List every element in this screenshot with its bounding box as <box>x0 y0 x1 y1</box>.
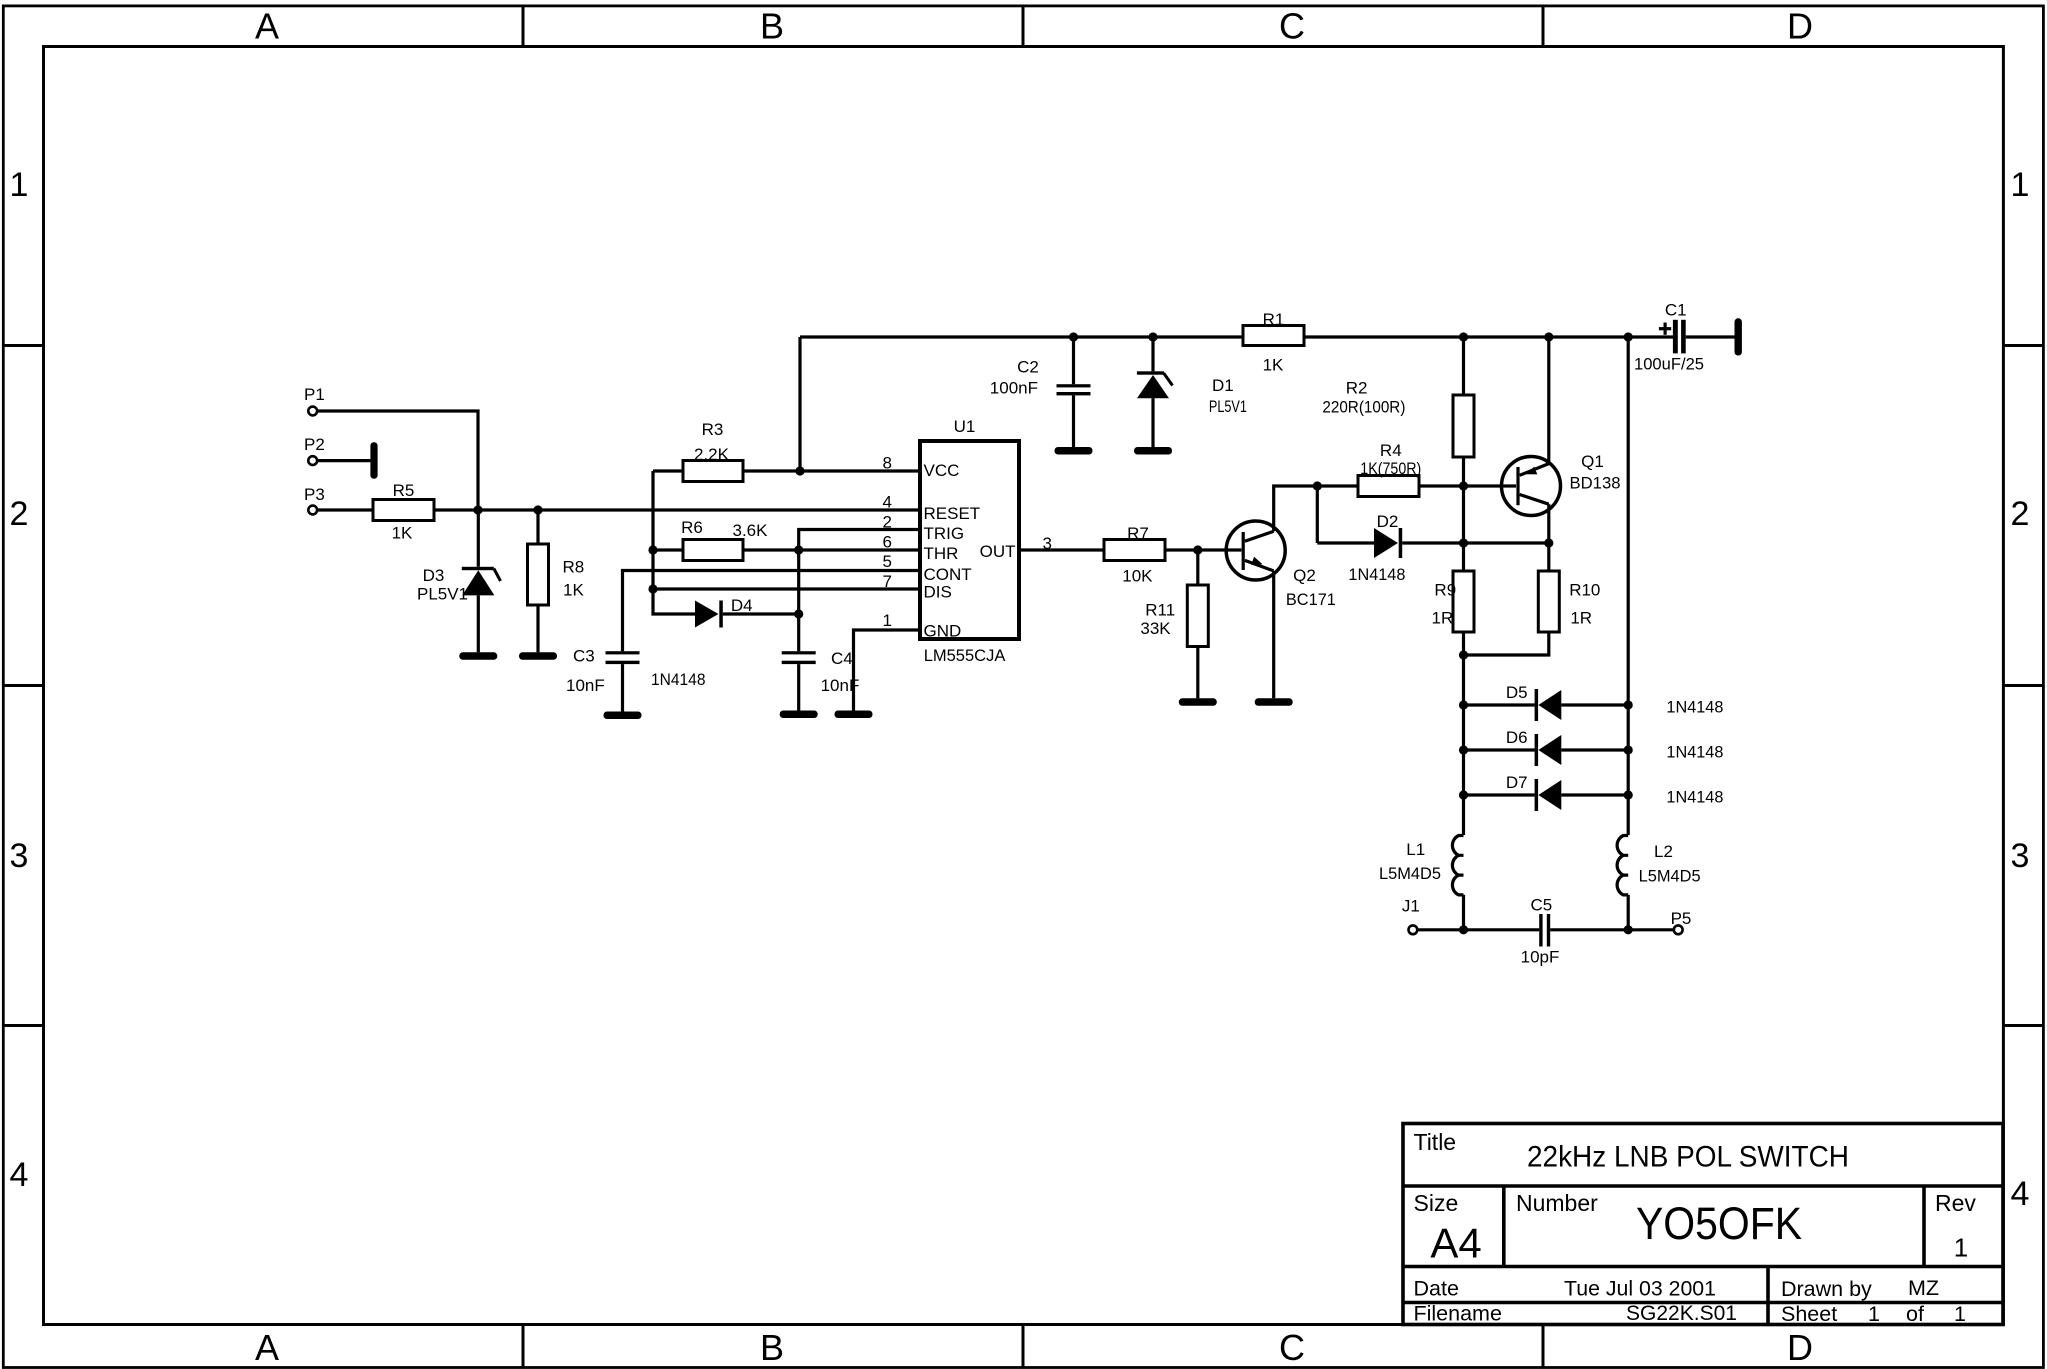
no-connect bar at P2 <box>370 442 377 479</box>
svg-text:7: 7 <box>883 572 892 591</box>
ground at U1 pin 1 <box>835 711 873 719</box>
wire power rail right of R1 <box>1304 335 1673 338</box>
ground at C2 <box>1055 447 1093 455</box>
svg-text:PL5V1: PL5V1 <box>1209 397 1247 416</box>
svg-text:10K: 10K <box>1122 567 1153 586</box>
junction left bus/D6 <box>1459 745 1468 754</box>
svg-text:PL5V1: PL5V1 <box>417 585 468 604</box>
wire node to R8 <box>536 510 539 544</box>
svg-text:3.6K: 3.6K <box>733 521 769 540</box>
resistor R5 <box>373 481 434 543</box>
svg-text:BC171: BC171 <box>1286 590 1336 609</box>
svg-text:MZ: MZ <box>1908 1276 1939 1300</box>
wire C4 to ground <box>797 664 800 710</box>
wire CONT pin 5 to C3 <box>623 571 919 652</box>
svg-text:L5M4D5: L5M4D5 <box>1639 867 1701 886</box>
svg-text:100uF/25: 100uF/25 <box>1634 355 1704 374</box>
wire R4 left lead <box>1317 484 1358 487</box>
svg-text:L2: L2 <box>1654 842 1673 861</box>
svg-text:4: 4 <box>10 1156 29 1194</box>
wire R4 to Q1 base <box>1419 484 1516 487</box>
inductor L2 <box>1617 836 1701 895</box>
junction L2/P5 <box>1624 925 1633 934</box>
svg-text:of: of <box>1906 1302 1924 1326</box>
title block <box>1403 1124 2003 1327</box>
junction rail/right bus <box>1624 332 1633 341</box>
junction left bus/D7 <box>1459 790 1468 799</box>
svg-text:1: 1 <box>1954 1233 1968 1263</box>
capacitor C4 <box>782 649 860 695</box>
wire D5 to right bus <box>1561 703 1628 706</box>
zener diode D3 <box>417 566 501 604</box>
svg-text:R7: R7 <box>1127 524 1149 543</box>
junction D2/R9 <box>1459 538 1468 547</box>
svg-text:1N4148: 1N4148 <box>1666 698 1723 717</box>
svg-text:R9: R9 <box>1434 581 1456 600</box>
port P1 <box>304 385 325 415</box>
svg-text:D3: D3 <box>423 566 445 585</box>
wire R6 to U1 THR pin 6 <box>743 548 918 551</box>
svg-text:5: 5 <box>883 552 892 571</box>
diode D5 <box>1506 683 1724 721</box>
svg-text:100nF: 100nF <box>990 379 1038 398</box>
ground at C3 <box>604 712 642 720</box>
transistor Q2 BC171 <box>1226 521 1336 609</box>
diode D6 <box>1506 728 1724 766</box>
svg-text:C1: C1 <box>1665 301 1687 320</box>
svg-text:33K: 33K <box>1140 619 1171 638</box>
wire rail to C2 <box>1072 337 1075 384</box>
svg-text:SG22K.S01: SG22K.S01 <box>1626 1301 1737 1325</box>
svg-text:VCC: VCC <box>924 461 960 480</box>
svg-text:D: D <box>1787 1327 1813 1368</box>
wire VCC riser to power rail <box>798 337 801 471</box>
junction R4/R2/Q1 base <box>1459 481 1468 490</box>
wire R8 to ground <box>536 605 539 652</box>
svg-text:THR: THR <box>924 544 959 563</box>
junction riser/D4 <box>794 609 803 618</box>
svg-text:1K: 1K <box>392 524 413 543</box>
svg-text:P5: P5 <box>1671 909 1692 928</box>
svg-text:1R: 1R <box>1570 609 1592 628</box>
svg-text:2: 2 <box>883 513 892 532</box>
svg-text:D2: D2 <box>1377 512 1399 531</box>
svg-text:1N4148: 1N4148 <box>1666 788 1723 807</box>
svg-text:P2: P2 <box>304 435 325 454</box>
svg-text:Q1: Q1 <box>1581 452 1604 471</box>
resistor R8 <box>528 544 585 605</box>
wire D2 node to Q1 collector node <box>1464 541 1549 544</box>
svg-text:Date: Date <box>1414 1277 1459 1301</box>
wire power rail left of R1 <box>800 335 1243 338</box>
junction bus/DIS <box>648 584 657 593</box>
junction Q2 collector node <box>1313 481 1322 490</box>
wire C5 to P5 <box>1550 928 1673 931</box>
svg-text:3: 3 <box>2011 837 2030 875</box>
svg-text:D7: D7 <box>1506 773 1528 792</box>
wire Q2 emitter to ground <box>1272 571 1275 698</box>
svg-text:Q2: Q2 <box>1293 566 1316 585</box>
svg-text:Rev: Rev <box>1935 1190 1976 1216</box>
svg-text:C5: C5 <box>1531 896 1553 915</box>
svg-text:10nF: 10nF <box>566 676 605 695</box>
wire right bus from rail to L2 <box>1627 337 1630 835</box>
svg-text:B: B <box>760 6 784 47</box>
wire Q1 emitter to power rail <box>1547 337 1550 464</box>
svg-text:1: 1 <box>1868 1302 1880 1326</box>
svg-text:D6: D6 <box>1506 728 1528 747</box>
svg-text:A: A <box>255 1327 279 1368</box>
wire D7 to right bus <box>1561 793 1628 796</box>
inductor L1 <box>1379 836 1464 895</box>
svg-text:1: 1 <box>2011 166 2030 204</box>
wire Q1 node to R10 <box>1547 543 1550 571</box>
svg-text:R8: R8 <box>563 558 585 577</box>
svg-text:1K(750R): 1K(750R) <box>1360 459 1421 478</box>
svg-text:L5M4D5: L5M4D5 <box>1379 864 1441 883</box>
svg-text:CONT: CONT <box>924 565 972 584</box>
svg-text:GND: GND <box>924 622 962 641</box>
junction R7/R11 <box>1193 545 1202 554</box>
svg-text:Number: Number <box>1516 1190 1598 1216</box>
resistor R10 <box>1538 571 1600 632</box>
wire node to R11 <box>1196 550 1199 585</box>
svg-text:D5: D5 <box>1506 683 1528 702</box>
capacitor C2 <box>990 358 1091 398</box>
wire Q1 collector <box>1547 504 1550 543</box>
svg-text:1: 1 <box>883 611 892 630</box>
port P2 <box>304 435 325 465</box>
svg-text:1: 1 <box>1954 1302 1966 1326</box>
svg-text:U1: U1 <box>954 417 976 436</box>
resistor R9 <box>1432 571 1474 632</box>
svg-text:C: C <box>1279 1327 1305 1368</box>
svg-text:L1: L1 <box>1406 840 1425 859</box>
svg-text:Drawn by: Drawn by <box>1781 1277 1872 1301</box>
wire P2 stub <box>318 459 370 462</box>
wire D1 to ground <box>1151 398 1154 447</box>
wire L2 to P5 node <box>1627 895 1630 930</box>
wire R9 to diode bus <box>1462 632 1465 835</box>
svg-text:D1: D1 <box>1212 376 1234 395</box>
wire R11 to ground <box>1196 647 1199 699</box>
wire DIS pin 7 <box>653 587 918 590</box>
svg-text:10pF: 10pF <box>1521 948 1560 967</box>
wire R6 left lead <box>653 548 683 551</box>
svg-text:1: 1 <box>10 166 29 204</box>
junction left bus/D5 <box>1459 700 1468 709</box>
svg-text:4: 4 <box>2011 1175 2030 1213</box>
svg-text:A: A <box>255 6 279 47</box>
junction right bus/D7 <box>1624 790 1633 799</box>
svg-text:D4: D4 <box>731 596 753 615</box>
svg-text:OUT: OUT <box>980 542 1016 561</box>
wire R3 left lead <box>653 469 683 472</box>
junction bus/R6 <box>648 545 657 554</box>
svg-text:3: 3 <box>10 837 29 875</box>
junction riser/THR <box>794 545 803 554</box>
svg-text:P1: P1 <box>304 385 325 404</box>
svg-text:R11: R11 <box>1145 601 1175 620</box>
connector J1 <box>1402 897 1420 935</box>
svg-text:C4: C4 <box>831 649 853 668</box>
capacitor C3 <box>566 647 640 696</box>
svg-text:Size: Size <box>1414 1190 1459 1216</box>
wire GND pin 1 <box>854 630 919 711</box>
junction right bus/D6 <box>1624 745 1633 754</box>
svg-text:TRIG: TRIG <box>924 524 965 543</box>
wire D4 to C4 riser <box>723 612 799 615</box>
junction right bus/D5 <box>1624 700 1633 709</box>
svg-text:1K: 1K <box>1263 356 1284 375</box>
wire R2 to R9 bus <box>1462 457 1465 571</box>
diode D2 <box>1348 512 1405 584</box>
port P3 <box>304 485 325 514</box>
svg-text:R1: R1 <box>1263 310 1285 329</box>
diode D4 <box>651 596 753 689</box>
ground at D3 <box>459 652 497 660</box>
port P5 <box>1671 909 1692 934</box>
diode D7 <box>1506 773 1724 811</box>
svg-text:4: 4 <box>883 493 892 512</box>
resistor R11 <box>1140 585 1208 647</box>
svg-text:Sheet: Sheet <box>1781 1302 1837 1326</box>
wire C2 to ground <box>1072 395 1075 447</box>
svg-text:6: 6 <box>883 533 892 552</box>
svg-text:R2: R2 <box>1346 379 1368 398</box>
svg-text:8: 8 <box>883 454 892 473</box>
wire node down to D2 <box>1316 486 1319 543</box>
svg-text:Filename: Filename <box>1414 1302 1502 1326</box>
ground at R11 <box>1179 698 1217 706</box>
wire Q2 collector to R4/D2 node <box>1274 486 1318 531</box>
svg-text:2: 2 <box>10 495 29 533</box>
wire L1 to J1 node <box>1462 895 1465 930</box>
capacitor C1 polarized <box>1634 301 1704 374</box>
ground at R8 <box>519 652 557 660</box>
svg-text:R10: R10 <box>1569 581 1600 600</box>
svg-text:B: B <box>760 1327 784 1368</box>
svg-text:R4: R4 <box>1380 441 1402 460</box>
wire node to zener D3 <box>477 510 480 567</box>
svg-text:P3: P3 <box>304 485 325 504</box>
svg-text:LM555CJA: LM555CJA <box>924 646 1006 665</box>
junction RESET/D3 node <box>473 505 482 514</box>
junction rail/D1 <box>1148 332 1157 341</box>
svg-text:DIS: DIS <box>924 583 952 602</box>
svg-text:R5: R5 <box>393 481 415 500</box>
terminator bar after C1 <box>1735 318 1742 355</box>
wire D6 to right bus <box>1561 748 1628 751</box>
svg-text:1N4148: 1N4148 <box>1348 565 1405 584</box>
ground at D1 <box>1134 447 1172 455</box>
junction rail/R2 <box>1459 332 1468 341</box>
ground at Q2 emitter <box>1255 698 1293 706</box>
resistor R4 <box>1358 441 1421 497</box>
svg-text:BD138: BD138 <box>1570 474 1621 493</box>
svg-text:YO5OFK: YO5OFK <box>1636 1198 1802 1249</box>
resistor R6 <box>681 518 768 561</box>
svg-text:J1: J1 <box>1402 897 1420 916</box>
junction VCC riser <box>795 466 804 475</box>
wire TRIG pin 2 and C4 riser <box>799 530 918 652</box>
wire R10 to tie node <box>1464 632 1549 655</box>
junction RESET/R8 node <box>533 505 542 514</box>
wire P1 to RESET net <box>318 411 478 510</box>
wire left bus to D7 <box>1464 793 1535 796</box>
capacitor C5 <box>1521 896 1560 967</box>
svg-text:1K: 1K <box>563 581 584 600</box>
svg-text:A4: A4 <box>1430 1220 1481 1267</box>
wire C3 to ground <box>621 664 624 711</box>
wire C1 to terminator <box>1686 335 1735 338</box>
wire J1 to C5 <box>1418 928 1539 931</box>
wire R3 to U1 VCC pin 8 <box>743 469 918 472</box>
transistor Q1 BD138 <box>1502 452 1621 516</box>
svg-text:RESET: RESET <box>924 504 981 523</box>
junction J1/L1 <box>1459 925 1468 934</box>
resistor R1 <box>1243 310 1304 375</box>
svg-text:1N4148: 1N4148 <box>651 670 706 689</box>
svg-text:Tue Jul 03 2001: Tue Jul 03 2001 <box>1564 1277 1716 1301</box>
wire R7 to Q2 base <box>1165 548 1241 551</box>
svg-text:22kHz LNB POL SWITCH: 22kHz LNB POL SWITCH <box>1527 1141 1849 1174</box>
junction rail/Q1 emitter <box>1544 332 1553 341</box>
resistor R7 <box>1104 524 1165 586</box>
ground at C4 <box>780 711 818 719</box>
svg-text:2.2K: 2.2K <box>694 445 730 464</box>
svg-text:R6: R6 <box>681 518 703 537</box>
svg-text:1N4148: 1N4148 <box>1666 743 1723 762</box>
svg-text:1R: 1R <box>1432 609 1454 628</box>
wire left bus to D5 <box>1464 703 1535 706</box>
svg-text:220R(100R): 220R(100R) <box>1322 398 1405 417</box>
wire left bus to D6 <box>1464 748 1535 751</box>
svg-text:R3: R3 <box>702 420 724 439</box>
svg-text:C2: C2 <box>1017 358 1039 377</box>
svg-text:Title: Title <box>1414 1129 1457 1155</box>
junction rail/C2 <box>1069 332 1078 341</box>
svg-text:2: 2 <box>2011 495 2030 533</box>
wire R5 to U1 RESET pin 4 <box>434 508 918 511</box>
wire rail to D1 <box>1151 337 1154 371</box>
resistor R2 <box>1322 379 1474 458</box>
junction Q1 collector/R10 <box>1544 538 1553 547</box>
wire OUT pin 3 to R7 <box>1021 548 1104 551</box>
svg-text:D: D <box>1787 6 1813 47</box>
wire D2 to R9 node <box>1402 541 1463 544</box>
zener diode D1 <box>1137 371 1247 416</box>
svg-text:C3: C3 <box>573 647 595 666</box>
junction R9/R10 tie <box>1459 650 1468 659</box>
wire bus R3-R6-DIS-D4 <box>653 471 695 614</box>
wire P3 to R5 <box>318 508 373 511</box>
wire rail to R2 <box>1462 337 1465 395</box>
resistor R3 <box>683 420 743 482</box>
IC U1 LM555CJA <box>920 417 1019 665</box>
wire D2 left lead <box>1317 541 1374 544</box>
wire D3 to ground <box>477 595 480 652</box>
svg-text:C: C <box>1279 6 1305 47</box>
